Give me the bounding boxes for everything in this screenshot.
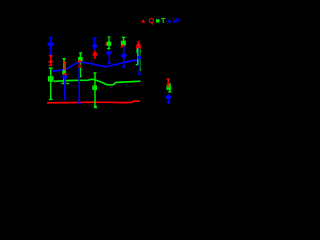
red model line [47,101,140,103]
cluster x=95 red triangle 2 [93,56,97,58]
cluster x=168 red triangle [166,83,169,85]
svg-text:Q: Q [149,16,155,25]
cluster x=50 green square [48,76,54,81]
cluster x=123 green errorbar [123,38,125,46]
cluster x=80 blue errorbar [78,64,80,104]
cluster x=109 green square [107,42,112,46]
cluster x=168 green errorbar [169,83,171,88]
cluster x=168 blue down arrow (upper limit) [167,100,169,102]
cluster x=123 red triangle [120,44,125,47]
cluster x=80 green square [78,57,83,61]
cluster x=64 blue diamond [61,75,68,80]
cluster x=50 blue diamond [47,41,55,47]
svg-text:W: W [173,16,180,25]
cluster x=123 green square [121,41,126,46]
cluster x=64 green square [62,70,66,74]
cluster x=168 red bottom cap [167,86,170,88]
cluster x=50 blue errorbar [50,38,52,55]
green model line [54,79,141,85]
legend blue diamond [167,19,171,23]
cluster x=50 red triangle (wide) [47,60,54,63]
cluster x=50 red errorbar [50,55,52,66]
cluster x=64 red triangle [63,73,68,76]
cluster x=80 green errorbar (under lines) [79,53,81,77]
cluster x=168 red errorbar [167,79,169,87]
svg-text:T: T [161,16,166,25]
cluster x=64 blue errorbar [64,77,66,99]
cluster x=95 blue diamond [91,43,98,49]
cluster x=95 green square [92,85,97,90]
cluster x=123 blue diamond [120,52,127,58]
cluster x=138 red triangle [136,44,141,49]
blue model line [51,60,138,71]
cluster x=80 dark red triangle [78,65,83,68]
cluster x=109 red triangle [105,42,108,45]
cluster x=138 blue diamond [137,55,142,61]
cluster x=95 green bottom cap [94,106,97,109]
cluster x=138 green square [136,49,140,53]
cluster x=168 green square [166,86,171,90]
legend green square [156,19,159,22]
cluster x=138 green errorbar 2 [139,52,141,70]
cluster x=109 blue diamond [106,50,112,56]
cluster x=95 blue errorbar [94,38,96,50]
cluster x=95 green errorbar [94,73,96,107]
cluster x=80 red triangle [77,60,82,62]
legend red triangle [141,19,145,22]
cluster x=95 red triangle [92,51,98,54]
cluster x=109 blue errorbar [108,53,110,63]
cluster x=64 green errorbar [63,59,65,84]
cluster x=138 blue errorbar [138,48,140,74]
cluster x=109 green errorbar [108,37,110,49]
cluster x=138 green errorbar [137,48,139,65]
cluster x=123 blue errorbar [123,46,125,67]
cluster x=138 red errorbar [138,42,140,49]
cluster x=64 red errorbar [64,62,66,83]
cluster x=168 blue diamond [165,94,172,100]
cluster x=50 green errorbar [50,68,52,100]
cluster x=95 red errorbar [94,50,96,59]
